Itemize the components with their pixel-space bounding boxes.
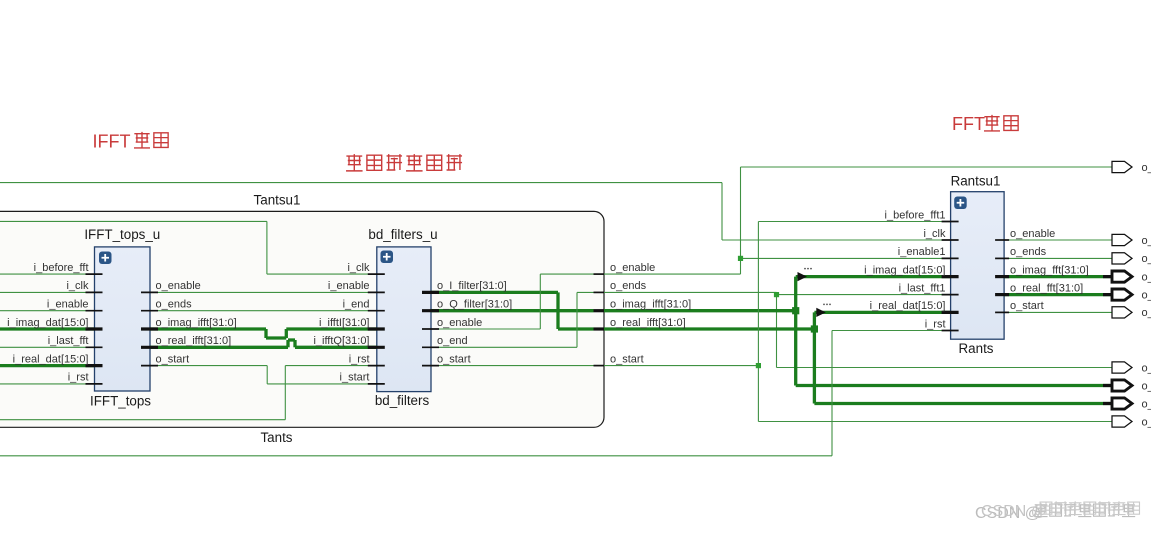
wire IFFT i_before_fft input (0, 273, 95, 275)
pin labels IFFT_tops_u right (156, 280, 237, 365)
svg-text:o_real_ifft[31:0]: o_real_ifft[31:0] (156, 335, 232, 347)
svg-text:o_: o_ (1142, 380, 1151, 392)
svg-text:o_real_ifft[31:0]: o_real_ifft[31:0] (610, 317, 686, 329)
pins Rantsu1 left (942, 222, 959, 331)
svg-text:o_ends: o_ends (156, 299, 193, 311)
svg-text:o_imag_ifft[31:0]: o_imag_ifft[31:0] (610, 299, 691, 311)
svg-text:bd_filters: bd_filters (375, 393, 430, 408)
pins bd_filters_u right (422, 292, 439, 365)
wire bd_filters o_end to Tantsu1 o_ends pin (431, 292, 594, 347)
wire Rantsu o_ends to port (1004, 257, 1112, 259)
output port y=403.5 (1112, 398, 1151, 410)
svg-text:o_I_filter[31:0]: o_I_filter[31:0] (437, 280, 507, 292)
svg-text:o_Q_filter[31:0]: o_Q_filter[31:0] (437, 299, 512, 311)
wire o_start IFFT to bd_filters i_start (150, 366, 377, 384)
wire IFFT i_real_dat[15:0] bus input (0, 364, 95, 367)
svg-text:i_ifftQ[31:0]: i_ifftQ[31:0] (313, 335, 369, 347)
svg-text:o_start: o_start (610, 353, 644, 365)
pins Tantsu1 right edge (594, 274, 605, 366)
svg-text:o_ends: o_ends (1010, 246, 1047, 258)
wire o_I_filter[31:0] bus bd_filters to Tantsu1 o_real_ifft pin (431, 292, 594, 329)
wire o_enable net (Tantsu1 to port and Rantsu i_enable1) (604, 167, 1112, 274)
svg-text:i_ifftI[31:0]: i_ifftI[31:0] (319, 317, 370, 329)
net marker arrow i_imag_dat (798, 268, 812, 282)
junction o_ends net (774, 292, 779, 297)
output port y=367.5 (1112, 362, 1151, 374)
svg-text:i_real_dat[15:0]: i_real_dat[15:0] (13, 353, 89, 365)
wire IFFT i_last_fft input (0, 346, 95, 348)
output port y=240.0 (1112, 234, 1151, 246)
svg-text:bd_filters_u: bd_filters_u (368, 227, 437, 242)
wire bd_filters o_start to Tantsu1 o_start pin (431, 365, 594, 367)
svg-text:i_rst: i_rst (925, 318, 946, 330)
block Rantsu1 (FFT module cell) (951, 192, 1005, 340)
svg-text:i_last_fft: i_last_fft (48, 335, 89, 347)
annotation shaping-filter module (red) (346, 154, 462, 171)
svg-text:o_enable: o_enable (1010, 228, 1055, 240)
svg-text:i_before_fft1: i_before_fft1 (885, 209, 946, 221)
wire o_imag_ifft[31:0] bus net (Tantsu1 to Rantsu i_imag_dat and port) (604, 277, 1112, 386)
svg-text:o_ends: o_ends (610, 280, 647, 292)
wire bd_filters o_enable to Tantsu1 o_enable pin (431, 274, 594, 329)
wire o_real_ifft[31:0] bus net (Tantsu1 to Rantsu i_real_dat and port) (604, 312, 1112, 403)
pin labels Tantsu1 right (610, 262, 691, 366)
wire Rantsu o_enable to port (1004, 239, 1112, 241)
svg-text:o_: o_ (1142, 162, 1151, 174)
pins IFFT_tops_u left (86, 274, 103, 384)
pins IFFT_tops_u right (141, 292, 158, 365)
wire Rantsu o_imag_fft[31:0] bus to port (1004, 275, 1112, 278)
pin labels Rantsu1 left (864, 209, 946, 330)
svg-text:o_: o_ (1142, 307, 1151, 319)
label bd_filters_u (368, 227, 437, 242)
output port y=312.4 (1112, 307, 1151, 319)
pins Rantsu1 right (995, 240, 1009, 312)
svg-text:o_: o_ (1142, 253, 1151, 265)
svg-text:o_start: o_start (1010, 300, 1044, 312)
svg-text:o_start: o_start (437, 353, 471, 365)
label Tantsu1 (container instance name) (254, 193, 301, 208)
pin labels bd_filters_u right (437, 280, 512, 365)
block IFFT_tops_u (IFFT module cell) (95, 247, 151, 391)
wire Rantsu o_start to port (1004, 311, 1112, 313)
svg-text:o_enable: o_enable (156, 280, 201, 292)
annotation IFFT module (red) (93, 132, 169, 152)
svg-text:o_end: o_end (437, 335, 468, 347)
wire o_start net (Tantsu1 to Rantsu i_before_fft1 and port) (604, 222, 1112, 422)
wire bd_filters i_clk feed (0, 221, 377, 274)
watermark CSDN (975, 501, 1139, 522)
wire o_enable IFFT to bd_filters i_enable (150, 291, 377, 293)
wire IFFT i_rst input (0, 383, 95, 385)
svg-text:i_rst: i_rst (349, 353, 370, 365)
net marker arrow i_real_dat (816, 304, 831, 318)
svg-text:i_rst: i_rst (68, 372, 89, 384)
svg-text:o_imag_fft[31:0]: o_imag_fft[31:0] (1010, 264, 1089, 276)
wire o_Q_filter[31:0] bus bd_filters to Tantsu1 o_imag_ifft pin (431, 309, 594, 312)
svg-text:i_clk: i_clk (923, 228, 946, 240)
junction o_start net (756, 363, 761, 368)
svg-text:i_end: i_end (343, 299, 370, 311)
svg-text:FFT: FFT (952, 114, 985, 134)
wire IFFT i_enable input (0, 310, 95, 312)
svg-text:i_enable: i_enable (328, 280, 370, 292)
label IFFT_tops (90, 394, 151, 409)
svg-text:Tants: Tants (260, 430, 292, 445)
svg-text:o_: o_ (1142, 289, 1151, 301)
pin stubs at output ports (bus rows) (1103, 277, 1112, 404)
output port y=421.5 (1112, 416, 1151, 428)
svg-text:i_enable1: i_enable1 (898, 246, 946, 258)
output port y=294.6 (1112, 289, 1151, 301)
wire o_real_ifft[31:0] bus IFFT to bd_filters i_ifftQ (with jog) (150, 340, 377, 347)
pins bd_filters_u left (368, 274, 385, 384)
output port y=276.6 (1112, 271, 1151, 283)
svg-text:i_enable: i_enable (47, 299, 89, 311)
svg-text:Rants: Rants (959, 341, 994, 356)
wire o_ends IFFT to bd_filters i_end (150, 310, 377, 312)
wire o_ends net (Tantsu1 to Rantsu i_last_fft1 and lower port) (604, 292, 1112, 367)
svg-text:o_enable: o_enable (437, 317, 482, 329)
label Tants (container type name) (260, 430, 292, 445)
hierarchical block Tantsu1 (container box) (0, 211, 604, 427)
pin labels Rantsu1 right (1010, 228, 1089, 312)
wire bd_filters i_rst feed (0, 366, 377, 420)
svg-text:o_: o_ (1142, 416, 1151, 428)
junction o_enable net (738, 256, 743, 261)
label Rantsu1 (951, 174, 1001, 189)
svg-text:i_clk: i_clk (66, 280, 89, 292)
svg-text:i_imag_dat[15:0]: i_imag_dat[15:0] (7, 317, 88, 329)
output port y=385.5 (1112, 380, 1151, 392)
block bd_filters_u (shaping filter cell) (377, 247, 431, 392)
wire IFFT i_imag_dat[15:0] bus input (0, 327, 95, 330)
svg-text:o_: o_ (1142, 271, 1151, 283)
svg-text:o_imag_ifft[31:0]: o_imag_ifft[31:0] (156, 317, 237, 329)
annotation FFT module (red) (952, 114, 1018, 134)
output port y=258.4 (1112, 253, 1151, 265)
pin labels IFFT_tops_u left (7, 262, 89, 384)
wire rst net bottom (left edge to Rantsu i_rst) (0, 331, 951, 456)
label bd_filters (375, 393, 430, 408)
output port y=167 (1112, 161, 1151, 173)
wire IFFT i_clk input (0, 291, 95, 293)
svg-text:i_last_fft1: i_last_fft1 (899, 282, 946, 294)
svg-text:CSDN @: CSDN @ (981, 503, 1047, 520)
wire Rantsu o_real_fft[31:0] bus to port (1004, 293, 1112, 296)
svg-text:Tantsu1: Tantsu1 (254, 193, 301, 208)
pin labels bd_filters_u left (313, 262, 370, 384)
label Rants (959, 341, 994, 356)
svg-text:o_enable: o_enable (610, 262, 655, 274)
svg-text:IFFT_tops: IFFT_tops (90, 394, 151, 409)
junction o_real_ifft bus (811, 325, 818, 332)
svg-text:IFFT_tops_u: IFFT_tops_u (84, 227, 160, 242)
svg-text:i_before_fft: i_before_fft (34, 262, 89, 274)
junction o_imag_ifft bus (792, 307, 799, 314)
svg-text:Rantsu1: Rantsu1 (951, 174, 1001, 189)
svg-text:o_: o_ (1142, 235, 1151, 247)
svg-text:o_: o_ (1142, 362, 1151, 374)
wire clk net top (left edge to Rantsu i_clk) (0, 183, 951, 240)
svg-text:o_real_fft[31:0]: o_real_fft[31:0] (1010, 282, 1083, 294)
svg-text:i_start: i_start (340, 372, 370, 384)
wire o_imag_ifft[31:0] bus IFFT to bd_filters i_ifftI (with jog) (150, 329, 377, 338)
svg-text:o_start: o_start (156, 353, 190, 365)
label IFFT_tops_u (84, 227, 160, 242)
svg-text:i_imag_dat[15:0]: i_imag_dat[15:0] (864, 264, 945, 276)
svg-text:IFFT: IFFT (93, 132, 131, 152)
svg-text:i_clk: i_clk (347, 262, 370, 274)
svg-text:i_real_dat[15:0]: i_real_dat[15:0] (870, 300, 946, 312)
svg-text:o_: o_ (1142, 398, 1151, 410)
